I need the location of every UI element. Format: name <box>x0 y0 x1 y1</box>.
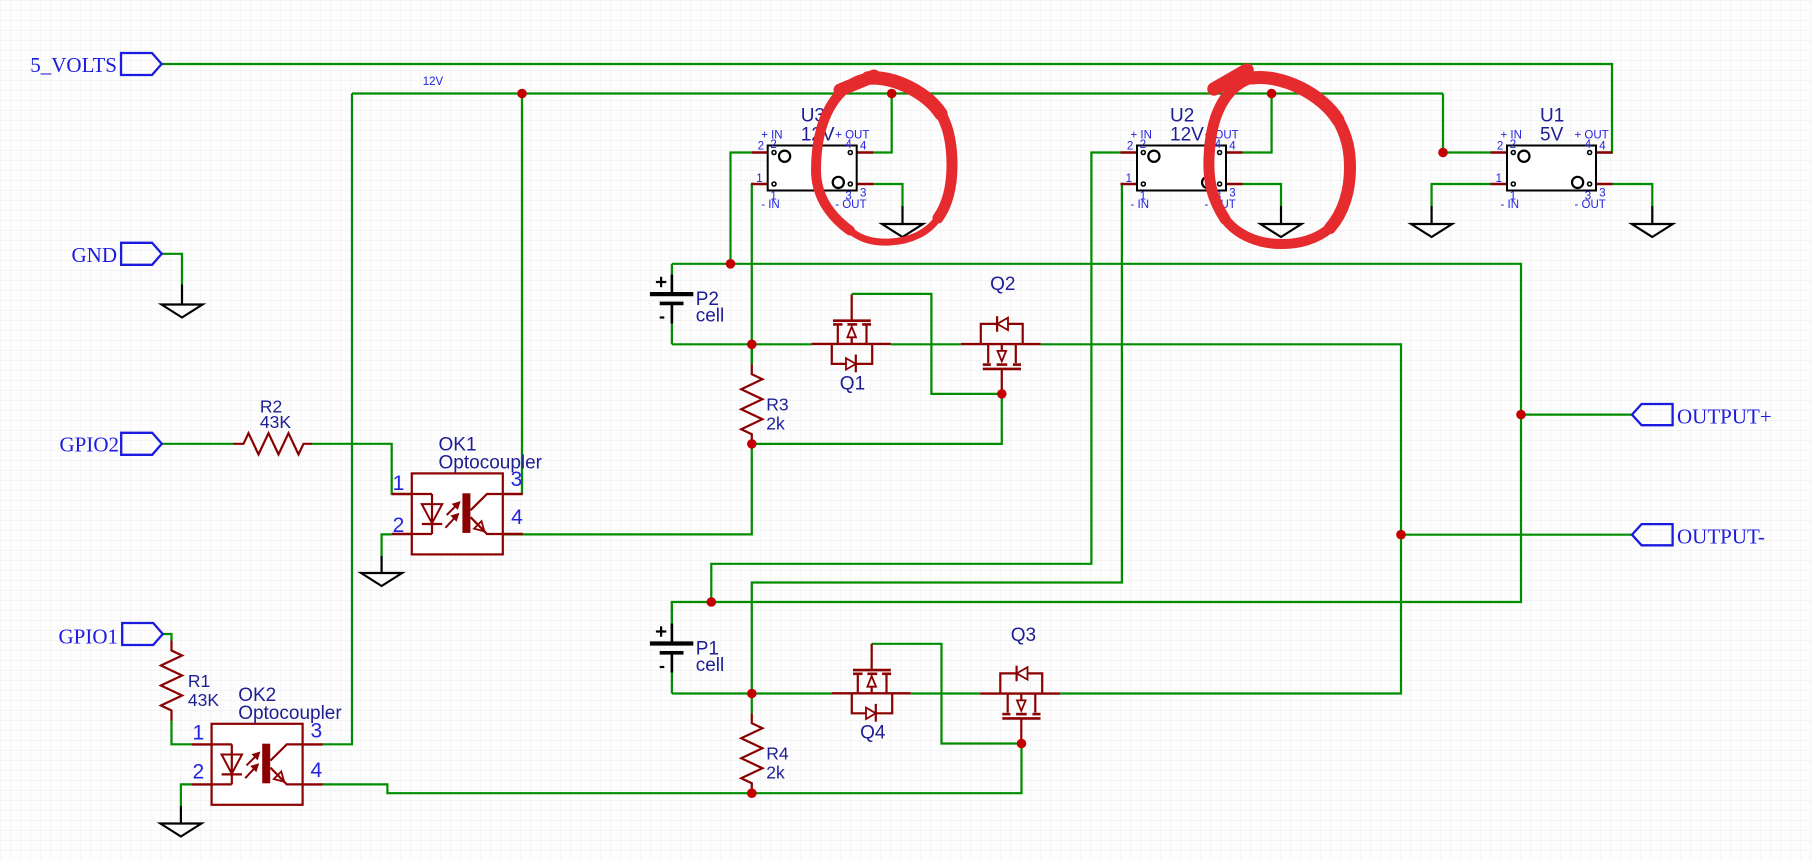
wire U2 pin3 to ground <box>1243 184 1282 206</box>
svg-text:Q3: Q3 <box>1011 625 1036 646</box>
net port GPIO1 <box>58 623 162 649</box>
svg-text:U2: U2 <box>1170 106 1194 127</box>
wire P2 top lead corner <box>671 264 673 275</box>
annotation red circle around U3 +OUT <box>816 76 952 242</box>
wire GPIO1 to R1 <box>163 634 172 641</box>
wire U2 pin2 to P1+ <box>711 153 1120 603</box>
svg-text:2: 2 <box>192 761 204 784</box>
svg-text:cell: cell <box>696 655 725 676</box>
svg-text:R1: R1 <box>188 671 210 691</box>
svg-text:1: 1 <box>1140 191 1146 203</box>
resistor R3 2k <box>741 364 788 444</box>
ground OK2 pin2 <box>160 806 201 837</box>
svg-text:GPIO2: GPIO2 <box>59 432 119 456</box>
wire Q4-Q3 row link <box>911 692 981 694</box>
svg-text:1: 1 <box>1510 191 1516 203</box>
optocoupler OK2 <box>192 685 343 805</box>
svg-text:Optocoupler: Optocoupler <box>238 703 342 724</box>
svg-text:1: 1 <box>770 191 776 203</box>
wire 12V to U1 pin2 <box>1443 94 1491 153</box>
junction 12V/U3.4 <box>887 89 897 99</box>
wire U2 pin1 to P1- row <box>752 184 1122 694</box>
svg-text:Optocoupler: Optocoupler <box>439 453 543 474</box>
wire P2+ row to right column <box>672 264 1521 624</box>
svg-text:12V: 12V <box>1170 125 1204 146</box>
junction 12V/OK1.3 <box>517 89 527 99</box>
svg-text:1: 1 <box>756 173 762 185</box>
wire Q1-Q2 row link <box>891 343 961 345</box>
junction Q3 gate <box>1017 739 1027 749</box>
wire R4 top link <box>751 694 753 714</box>
svg-text:1: 1 <box>393 472 405 495</box>
svg-text:2k: 2k <box>766 414 785 434</box>
ground U1 -OUT <box>1632 206 1673 237</box>
svg-text:4: 4 <box>511 506 523 529</box>
ground OK1 pin2 <box>361 556 402 586</box>
svg-text:1: 1 <box>1126 173 1132 185</box>
transistor Q1 (N-MOSFET) <box>812 294 891 394</box>
wire OUTPUT+ <box>1521 414 1632 416</box>
wire U3 pin2 to P2+ <box>731 153 752 264</box>
wire 12V to OK2 pin3 <box>322 94 352 745</box>
wire Q2 row to OUTPUT- column and Q3 row <box>1041 344 1401 693</box>
svg-text:2: 2 <box>1497 141 1503 153</box>
svg-text:43K: 43K <box>188 690 219 710</box>
junction P2+/U3.2 <box>726 259 736 269</box>
svg-text:3: 3 <box>860 188 866 200</box>
resistor R2 43K <box>234 396 313 454</box>
IC U3 12V converter box <box>751 106 873 212</box>
wire Q1/Q2 gate net <box>852 294 1002 394</box>
transistor Q3 (P-MOSFET) <box>980 625 1060 743</box>
junction R4 bottom <box>747 788 757 798</box>
transistor Q4 (N-MOSFET) <box>832 644 911 744</box>
wire 12V to U2 pin4 <box>1243 94 1272 153</box>
svg-text:U1: U1 <box>1540 106 1564 127</box>
junction R3/OK1.4 <box>747 439 757 449</box>
wire U3 pin3 to ground <box>872 184 903 206</box>
svg-text:R4: R4 <box>766 744 789 764</box>
svg-text:3: 3 <box>511 468 523 491</box>
junction P1+/U2.2 <box>707 597 717 607</box>
wire Q4/Q3 gate net <box>872 644 1022 744</box>
svg-text:cell: cell <box>696 306 725 327</box>
annotation red circle around U2 +OUT <box>1209 70 1350 244</box>
junction OUTPUT+ <box>1516 410 1526 420</box>
svg-text:12V: 12V <box>423 76 444 88</box>
wire P2 bottom lead to row <box>671 324 673 345</box>
ground U1 -IN <box>1411 206 1452 237</box>
svg-text:4: 4 <box>311 759 323 782</box>
IC U2 12V converter box <box>1121 106 1243 212</box>
IC U1 5V converter box <box>1491 106 1613 212</box>
wire U1 pin3 to ground <box>1612 184 1653 206</box>
wire 12V rail <box>352 92 1443 94</box>
svg-text:3: 3 <box>311 720 323 743</box>
wire R3 top link <box>751 344 753 364</box>
net port OUTPUT- <box>1632 524 1765 548</box>
svg-text:3: 3 <box>845 191 851 203</box>
svg-text:Q1: Q1 <box>840 374 865 395</box>
ground U2 -OUT <box>1261 206 1302 237</box>
svg-text:4: 4 <box>845 139 852 151</box>
svg-text:Q4: Q4 <box>860 723 886 744</box>
svg-text:1: 1 <box>1496 173 1502 185</box>
junction 12V/U1.2 <box>1438 148 1448 158</box>
net port GPIO2 <box>59 432 161 456</box>
wire OK2 pin4 to bottom row <box>322 744 1022 794</box>
svg-text:GPIO1: GPIO1 <box>58 625 118 649</box>
wire R1 to OK2 pin1 <box>172 720 192 744</box>
wire OK2 pin2 to ground <box>181 784 192 806</box>
svg-text:2: 2 <box>393 514 405 537</box>
resistor R1 43K <box>161 641 219 721</box>
wire P1- row through Q4 <box>672 692 832 694</box>
svg-text:OUTPUT-: OUTPUT- <box>1677 525 1765 549</box>
svg-text:R3: R3 <box>766 395 788 415</box>
net port OUTPUT+ <box>1632 404 1772 429</box>
svg-text:2: 2 <box>770 139 776 151</box>
svg-text:3: 3 <box>1585 191 1591 203</box>
svg-text:2: 2 <box>758 141 764 153</box>
svg-text:OUTPUT+: OUTPUT+ <box>1677 405 1772 429</box>
svg-text:5V: 5V <box>1540 125 1564 146</box>
junction OUTPUT- <box>1396 530 1406 540</box>
junction P2-/R3 <box>747 340 757 350</box>
transistor Q2 (P-MOSFET) <box>961 274 1041 394</box>
wire P2- row through Q1 Q2 <box>672 343 812 345</box>
wire R2 to OK1 pin1 <box>312 444 392 494</box>
svg-text:5_VOLTS: 5_VOLTS <box>30 53 117 77</box>
wire 12V to OK1 pin3 <box>521 94 523 495</box>
svg-text:2: 2 <box>1510 139 1516 151</box>
svg-text:2: 2 <box>1140 139 1146 151</box>
wire 5_VOLTS: port to U1 pin4 <box>162 64 1612 153</box>
wire Q2 gate junction to R3 bottom <box>752 394 1002 444</box>
junction P1-/R4 <box>747 689 757 699</box>
svg-text:3: 3 <box>1599 188 1605 200</box>
net port 5_VOLTS <box>30 53 161 77</box>
svg-text:4: 4 <box>1599 141 1606 153</box>
resistor R4 2k <box>741 713 789 793</box>
svg-text:4: 4 <box>860 141 867 153</box>
battery P2 cell <box>650 275 724 327</box>
ground GND port <box>162 285 203 318</box>
svg-text:3: 3 <box>1229 188 1235 200</box>
optocoupler OK1 <box>392 435 543 555</box>
svg-text:2k: 2k <box>766 763 785 783</box>
wire 12V to U3 pin4 <box>872 94 892 153</box>
wire P1 top lead <box>671 602 673 624</box>
wire OUTPUT- <box>1401 534 1632 536</box>
svg-text:Q2: Q2 <box>990 274 1015 295</box>
ground U3 -OUT <box>882 206 923 237</box>
junction 12V/U2.4 <box>1267 89 1277 99</box>
svg-text:2: 2 <box>1127 141 1133 153</box>
svg-text:43K: 43K <box>260 412 291 432</box>
wire R3 bottom to OK1 pin4 row <box>461 444 751 535</box>
wire U3 pin1 down to P2- row <box>750 184 753 364</box>
wire GND port to ground <box>162 254 182 285</box>
junction Q2 gate <box>997 389 1007 399</box>
svg-text:GND: GND <box>72 243 118 267</box>
svg-text:4: 4 <box>1229 141 1236 153</box>
wire GPIO2 to R2 <box>162 443 234 445</box>
wire U1 pin1 to ground <box>1432 184 1491 206</box>
svg-text:4: 4 <box>1585 139 1592 151</box>
net port GND <box>72 243 162 267</box>
wire P1 bottom lead to row <box>671 673 673 694</box>
wire OK1 pin2 to ground <box>382 534 392 556</box>
svg-text:1: 1 <box>192 722 204 745</box>
battery P1 cell <box>650 624 724 676</box>
